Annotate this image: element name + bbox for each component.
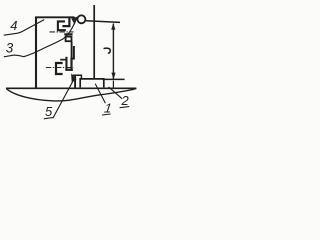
- lower slot bolt right bar: [70, 59, 72, 71]
- dimension bottom tick: [103, 78, 125, 80]
- label 2 underline: [120, 107, 130, 108]
- dimension extension to base: [112, 81, 114, 88]
- plate right edge mid segment: [71, 42, 73, 59]
- label 1 underline: [102, 114, 111, 115]
- plate top edge: [35, 16, 74, 18]
- lower slot bolt left bar: [65, 57, 67, 71]
- dimension up arrowhead: [111, 23, 115, 30]
- label l (rotated script ell): [104, 48, 111, 53]
- roller circle: [77, 15, 85, 23]
- lower slot right edge piece: [73, 46, 75, 59]
- upper slot left C-channel: [58, 21, 66, 30]
- dimension line L: [112, 24, 114, 80]
- base bottom arc: [6, 88, 136, 100]
- rod: [93, 5, 95, 79]
- upper slot bolt-head box: [66, 37, 72, 42]
- upper slot centerline (dash-dot): [50, 31, 74, 33]
- plate right edge upper stub: [73, 17, 75, 22]
- lower slot C-channel: [56, 63, 63, 74]
- lower slot bolt top stub: [60, 59, 65, 61]
- dimension down arrowhead: [111, 73, 115, 80]
- plate left edge: [35, 17, 37, 88]
- svg-text:5: 5: [45, 104, 53, 119]
- top reference tick line: [86, 21, 120, 23]
- leader line 3 (with underline start, curved): [4, 23, 75, 57]
- svg-text:2: 2: [121, 93, 130, 108]
- lower slot edge-to-bolt connector: [70, 58, 74, 60]
- leader line 4 (with underline start): [4, 20, 45, 36]
- leader 5 arrowhead: [71, 73, 77, 82]
- svg-text:3: 3: [6, 40, 14, 55]
- leader line 2: [109, 87, 123, 99]
- lower slot bolt bottom join: [65, 69, 73, 71]
- svg-text:4: 4: [10, 18, 17, 33]
- leader line 5 (with underline start): [44, 81, 73, 119]
- bracket step to block: [73, 75, 82, 79]
- upper slot right hook: [62, 18, 69, 27]
- plate right edge lower stub: [74, 75, 76, 88]
- upper slot lower bar: [64, 33, 72, 35]
- lower slot centerline (dash-dot): [46, 67, 73, 69]
- block on base: [80, 79, 104, 88]
- leader line 1: [95, 84, 105, 104]
- base top line: [6, 87, 136, 89]
- leader 3 arrowhead at roller: [71, 16, 78, 24]
